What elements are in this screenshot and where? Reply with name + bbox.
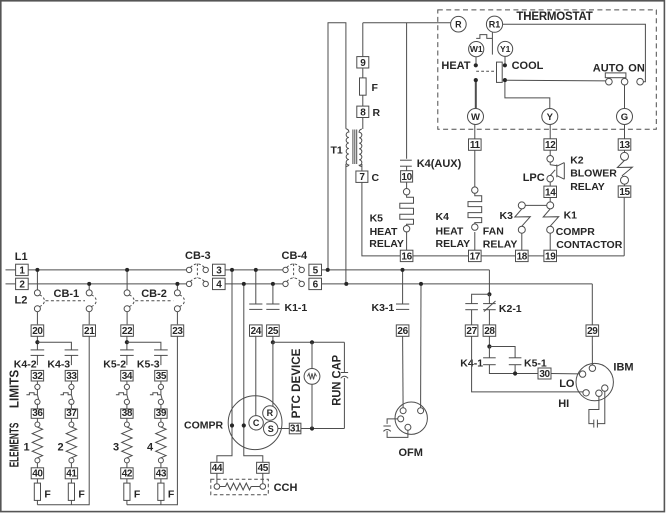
node R: [451, 16, 467, 32]
wire heat output to W (bold): [475, 82, 477, 108]
wire branch to K5-3: [127, 342, 161, 350]
wire 15 drop to common: [623, 198, 625, 256]
transformer T1 core: [352, 130, 354, 165]
svg-text:K4-3: K4-3: [47, 359, 70, 371]
terminal 12: [544, 139, 557, 151]
svg-text:21: 21: [84, 326, 95, 337]
svg-text:45: 45: [258, 463, 269, 474]
wire primary bottom to L2: [345, 164, 347, 284]
svg-text:R: R: [455, 19, 462, 29]
wire cool output to fan switch: [507, 79, 607, 82]
svg-text:ELEMENTS: ELEMENTS: [8, 423, 22, 468]
node L2-OFM: [419, 282, 423, 286]
wire contacts to 30: [489, 365, 538, 374]
node L1-CB1: [35, 268, 39, 272]
fan switch AUTO-ON bar: [605, 73, 626, 78]
terminal 18: [516, 250, 529, 262]
terminal 35: [155, 370, 167, 381]
wire L1 to K1-1a: [255, 270, 257, 304]
wire R1 to fan switch: [503, 24, 646, 81]
node K5-1 join: [513, 371, 517, 375]
limit switch 35: [158, 384, 163, 389]
svg-text:FAN: FAN: [483, 225, 504, 237]
svg-text:7: 7: [359, 172, 365, 183]
svg-text:14: 14: [545, 187, 556, 198]
svg-text:26: 26: [397, 326, 408, 337]
wire to K2-1 NO side: [472, 294, 490, 303]
heat-cool linkage dashed: [476, 70, 496, 72]
terminal 4: [213, 278, 226, 290]
heating element above 40: [35, 422, 40, 427]
svg-text:K4: K4: [436, 211, 450, 223]
svg-text:W1: W1: [470, 44, 483, 54]
contact K4-2: [31, 349, 45, 351]
svg-text:K2: K2: [570, 154, 584, 166]
wire Y1 to cool contact: [504, 56, 506, 63]
wire L2 to K1-1b: [272, 284, 274, 304]
svg-text:44: 44: [212, 463, 223, 474]
contact K5-1: [509, 357, 522, 359]
terminal 33: [65, 370, 77, 381]
terminal 16: [400, 250, 413, 262]
wire R to K4AUX: [406, 23, 408, 159]
svg-text:36: 36: [32, 408, 43, 419]
relay coil K4: [472, 187, 478, 193]
wire secondary R drop: [362, 23, 364, 57]
node L2-CCH: [242, 282, 246, 286]
svg-text:RUN CAP: RUN CAP: [331, 355, 343, 406]
wire K2-1 NC side: [488, 294, 490, 303]
node L1-transformer: [326, 268, 330, 272]
node PTC bottom: [310, 426, 314, 430]
PTC device: [311, 342, 313, 368]
transformer T1 secondary winding: [359, 129, 362, 167]
terminal 17: [469, 250, 482, 262]
thermostat enclosure: [438, 10, 657, 129]
wire 25 down: [272, 336, 274, 342]
contact K2-1b NC: [483, 303, 496, 305]
wire K3-K1 link: [525, 204, 546, 206]
relay coil K2: [621, 152, 629, 160]
wire 27 to IBM HI: [472, 336, 583, 392]
wire 26 to OFM: [402, 336, 405, 407]
terminal 29: [586, 325, 599, 337]
svg-text:29: 29: [587, 326, 598, 337]
svg-text:9: 9: [360, 58, 366, 69]
node 25 branch: [271, 340, 275, 344]
wire 24 to compressor C: [255, 336, 257, 415]
wire cool output to Y: [505, 82, 550, 108]
svg-text:3: 3: [216, 265, 222, 276]
svg-text:CCH: CCH: [274, 482, 298, 494]
svg-text:20: 20: [32, 326, 43, 337]
svg-text:K3: K3: [500, 210, 514, 222]
terminal 39: [155, 408, 167, 419]
wire W1 to heat contact: [475, 57, 477, 64]
terminal 28: [483, 325, 496, 337]
svg-text:33: 33: [66, 371, 77, 382]
svg-text:HEAT: HEAT: [436, 225, 464, 237]
compressor COMPR housing: [228, 396, 282, 450]
CB-2 linkage dashed: [135, 300, 173, 302]
svg-text:17: 17: [470, 251, 481, 262]
svg-text:L1: L1: [15, 251, 28, 263]
svg-text:K4(AUX): K4(AUX): [417, 158, 462, 170]
svg-text:L2: L2: [15, 295, 28, 307]
node 20 branch: [35, 340, 39, 344]
limit switch 32: [35, 384, 40, 389]
svg-text:Y: Y: [547, 112, 554, 123]
svg-text:COMPR: COMPR: [184, 419, 224, 431]
svg-text:23: 23: [172, 326, 183, 337]
svg-text:R1: R1: [489, 19, 501, 29]
svg-text:RELAY: RELAY: [570, 181, 605, 193]
fan switch contacts: [606, 78, 613, 85]
wire 29 to IBM: [591, 336, 593, 365]
terminal 11: [469, 139, 482, 151]
svg-text:RELAY: RELAY: [483, 239, 518, 251]
contact K5-3: [154, 349, 168, 351]
wire 25 to compressor R: [272, 342, 274, 407]
svg-text:K5: K5: [370, 212, 384, 224]
terminal 30: [538, 368, 551, 380]
svg-text:2: 2: [58, 441, 64, 453]
wire C common run: [362, 182, 401, 256]
svg-text:4: 4: [216, 279, 222, 290]
terminal 42: [121, 468, 133, 480]
limit switch 34: [124, 384, 129, 389]
node Y: [542, 109, 558, 125]
node L2-K1-1b: [271, 282, 275, 286]
terminal 44: [211, 462, 224, 474]
terminal 40: [31, 468, 43, 480]
wire W to K4 coil: [474, 125, 476, 139]
terminal 9: [357, 57, 369, 69]
svg-text:F: F: [168, 488, 175, 500]
node R1: [486, 16, 502, 32]
wire L2 bus: [6, 283, 187, 285]
svg-text:K4-2: K4-2: [14, 359, 37, 371]
wire 14 to coils: [549, 198, 551, 202]
fuse F at 41: [68, 483, 74, 500]
wire fan switch to G: [624, 85, 626, 108]
wire 30 to IBM LO: [551, 373, 580, 375]
wire L1 to CCH 44: [217, 270, 232, 462]
wire 22 to contacts: [126, 336, 128, 350]
wire L1 to K3-1: [402, 270, 404, 304]
wire R1 stub: [491, 32, 493, 54]
wire secondary bottom to terminal 7: [361, 164, 363, 171]
svg-text:BLOWER: BLOWER: [570, 168, 617, 180]
wire branch to K4-3: [37, 342, 71, 350]
wire L2 to OFM: [420, 284, 422, 408]
terminal 19: [544, 250, 557, 262]
svg-text:25: 25: [268, 326, 279, 337]
svg-text:W: W: [471, 112, 480, 123]
svg-text:Y1: Y1: [500, 44, 511, 54]
svg-text:K5-2: K5-2: [103, 359, 126, 371]
terminal 37: [65, 408, 77, 419]
node L1-K3-1: [401, 268, 405, 272]
terminal 20: [31, 325, 44, 337]
terminal 31: [289, 423, 301, 434]
svg-text:CONTACTOR: CONTACTOR: [556, 239, 623, 251]
node L2-CB2: [175, 282, 179, 286]
svg-text:G: G: [621, 112, 628, 123]
node L1-CB2: [125, 268, 129, 272]
contact K4-3: [65, 349, 79, 351]
svg-text:11: 11: [470, 140, 481, 151]
svg-text:ON: ON: [628, 62, 645, 74]
svg-text:28: 28: [484, 326, 495, 337]
svg-text:22: 22: [122, 326, 133, 337]
contact K5-2: [120, 349, 134, 351]
svg-text:OFM: OFM: [399, 447, 423, 459]
terminal 25: [267, 325, 280, 337]
svg-text:HEAT: HEAT: [370, 226, 398, 238]
svg-text:10: 10: [401, 172, 412, 183]
wire 28 down: [488, 336, 490, 346]
CB-1 linkage dashed: [46, 300, 86, 302]
terminal 5: [309, 264, 322, 276]
svg-text:THERMOSTAT: THERMOSTAT: [516, 11, 592, 23]
node W1: [469, 42, 484, 57]
run capacitor RUN CAP: [343, 342, 345, 372]
svg-text:CB-2: CB-2: [141, 288, 167, 300]
svg-text:K3-1: K3-1: [372, 302, 395, 314]
wire element return B: [127, 336, 177, 504]
terminal 21: [83, 325, 96, 337]
blower motor IBM: [576, 363, 613, 400]
terminal 38: [121, 408, 133, 419]
circuit breaker CB-1 pole B: [88, 284, 90, 290]
contact K3-1: [396, 303, 409, 305]
wire L1 bus: [6, 269, 187, 271]
wire L1 end down to K2-1: [488, 270, 490, 294]
circuit breaker CB-3: [186, 267, 191, 272]
svg-text:27: 27: [466, 326, 477, 337]
wire 31 to run cap bottom: [301, 428, 345, 430]
circuit breaker CB-4: [283, 267, 288, 272]
svg-text:13: 13: [619, 140, 630, 151]
svg-text:PTC DEVICE: PTC DEVICE: [289, 348, 303, 418]
svg-text:15: 15: [619, 187, 630, 198]
node cool contact: [503, 63, 507, 67]
svg-text:6: 6: [313, 279, 319, 290]
svg-text:AUTO: AUTO: [593, 62, 624, 74]
terminal 32: [31, 370, 43, 381]
terminal 22: [121, 325, 134, 337]
contact K4(AUX): [400, 159, 412, 161]
svg-text:41: 41: [66, 469, 77, 480]
node 22 branch: [125, 340, 129, 344]
svg-text:K5-3: K5-3: [137, 359, 160, 371]
wire transformer primary loop top: [328, 23, 346, 270]
node 28 branch: [487, 344, 491, 348]
svg-text:C: C: [253, 418, 260, 428]
terminal 43: [155, 468, 167, 480]
relay coil K3: [518, 202, 525, 209]
svg-text:16: 16: [401, 251, 412, 262]
terminal 23: [171, 325, 184, 337]
node PTC top: [310, 340, 314, 344]
svg-text:F: F: [44, 488, 51, 500]
svg-text:CB-4: CB-4: [282, 250, 309, 262]
terminal 26: [396, 325, 409, 337]
svg-text:C: C: [372, 172, 380, 184]
svg-text:CB-1: CB-1: [54, 288, 80, 300]
terminal 24: [250, 325, 263, 337]
svg-text:30: 30: [539, 369, 550, 380]
wire branch to K5-1: [489, 347, 515, 358]
terminal 45: [257, 462, 270, 474]
transformer T1 primary winding: [346, 129, 349, 167]
compressor terminal R: [263, 406, 277, 420]
OFM run capacitor: [387, 419, 398, 424]
circuit breaker CB-2 pole A: [126, 270, 128, 290]
wire 24V common 16-17-18-19: [413, 255, 624, 257]
node L1-K1-1a: [254, 268, 258, 272]
node K2-1 split: [487, 292, 491, 296]
contact K2-1a: [465, 303, 478, 305]
svg-text:F: F: [372, 82, 379, 94]
svg-text:RELAY: RELAY: [369, 238, 404, 250]
relay coil K5: [406, 182, 408, 188]
wire 20 to contacts: [36, 336, 38, 350]
contact K4-1: [488, 347, 490, 358]
crankcase heater CCH: [211, 479, 268, 495]
terminal 14: [544, 186, 557, 198]
node heat output: [474, 78, 478, 82]
fuse F at 42: [124, 483, 130, 500]
svg-text:K1: K1: [564, 210, 578, 222]
svg-text:12: 12: [545, 140, 556, 151]
node L1-CCH: [230, 268, 234, 272]
svg-text:IBM: IBM: [613, 362, 633, 374]
heating element above 43: [158, 422, 163, 427]
compressor terminal S: [264, 421, 278, 435]
svg-text:31: 31: [290, 424, 301, 435]
svg-text:1: 1: [24, 441, 30, 453]
terminal 13: [618, 139, 631, 151]
svg-text:42: 42: [122, 469, 133, 480]
svg-text:S: S: [268, 424, 274, 434]
pressure switch LPC: [547, 156, 554, 163]
svg-text:HEAT: HEAT: [441, 60, 470, 72]
cool switch bimetal: [497, 62, 503, 82]
svg-text:CB-3: CB-3: [185, 250, 211, 262]
circuit breaker CB-2 pole B: [176, 284, 178, 290]
svg-text:LPC: LPC: [523, 172, 545, 184]
svg-text:19: 19: [545, 251, 556, 262]
svg-text:34: 34: [122, 371, 133, 382]
terminal 1: [16, 264, 29, 276]
fan motor OFM: [395, 402, 427, 434]
svg-text:3: 3: [113, 441, 119, 453]
terminal 2: [16, 278, 29, 290]
svg-text:K2-1: K2-1: [499, 303, 522, 315]
node W: [468, 109, 484, 125]
circuit breaker CB-1 pole A: [36, 270, 38, 290]
svg-text:RELAY: RELAY: [436, 238, 471, 250]
heating element above 42: [124, 422, 129, 427]
wire L2 to CCH 45: [244, 284, 263, 462]
svg-text:37: 37: [66, 408, 77, 419]
contact K1-1b: [266, 303, 279, 305]
heating element above 41: [69, 422, 74, 427]
compressor terminal C: [249, 416, 263, 430]
svg-text:38: 38: [122, 408, 133, 419]
fuse F at 40: [34, 483, 40, 500]
fuse F transformer: [360, 78, 367, 95]
terminal 7: [356, 171, 368, 183]
node L2-transformer: [344, 282, 348, 286]
svg-text:R: R: [373, 107, 381, 119]
svg-text:HI: HI: [558, 398, 569, 410]
node compressor shell A: [230, 423, 234, 427]
node heat contact: [474, 63, 478, 67]
terminal 34: [121, 370, 133, 381]
terminal 3: [213, 264, 226, 276]
svg-text:40: 40: [32, 469, 43, 480]
terminal 8: [357, 106, 369, 118]
terminal 6: [309, 278, 322, 290]
node compressor shell B: [242, 423, 246, 427]
svg-text:8: 8: [360, 107, 366, 118]
terminal 10: [401, 171, 413, 183]
IBM run capacitor: [589, 396, 599, 423]
terminal 41: [65, 468, 77, 480]
wire element return A: [37, 336, 89, 504]
node L2-CB1: [87, 282, 91, 286]
terminal 36: [31, 408, 43, 419]
node cool output: [503, 78, 507, 82]
limit switch 33: [69, 384, 74, 389]
svg-text:43: 43: [156, 469, 167, 480]
wire L2 to 29: [591, 284, 593, 325]
svg-text:4: 4: [147, 441, 154, 453]
svg-text:F: F: [134, 488, 141, 500]
svg-text:5: 5: [313, 265, 319, 276]
svg-text:32: 32: [32, 371, 43, 382]
wire branch to run cap top: [273, 341, 345, 343]
svg-text:39: 39: [156, 408, 167, 419]
svg-text:1: 1: [19, 265, 25, 276]
svg-text:T1: T1: [331, 144, 343, 156]
wire S to 31: [278, 428, 289, 430]
heat anticipator: [476, 35, 492, 39]
svg-text:COMPR: COMPR: [556, 226, 596, 238]
svg-text:LO: LO: [559, 378, 575, 390]
wire G to K2 coil: [624, 125, 626, 139]
fuse F at 43: [158, 483, 164, 500]
relay coil K1: [547, 202, 554, 209]
terminal 27: [465, 325, 478, 337]
svg-text:18: 18: [517, 251, 528, 262]
terminal 15: [618, 186, 631, 198]
svg-text:2: 2: [19, 279, 25, 290]
wire Y to LPC: [549, 125, 551, 139]
svg-text:F: F: [78, 488, 85, 500]
svg-text:35: 35: [156, 371, 167, 382]
svg-text:24: 24: [251, 326, 262, 337]
svg-text:R: R: [267, 408, 274, 418]
svg-text:K1-1: K1-1: [285, 302, 308, 314]
wire R secondary to thermostat: [363, 22, 452, 24]
contact K1-1a: [249, 303, 262, 305]
node Y1: [498, 41, 513, 56]
svg-text:COOL: COOL: [512, 60, 544, 72]
